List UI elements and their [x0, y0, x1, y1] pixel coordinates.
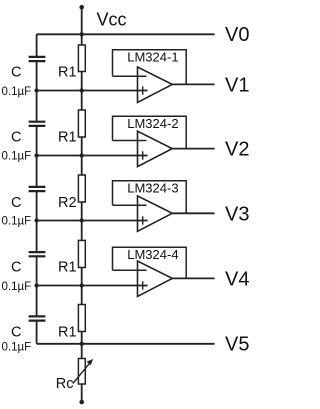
svg-text:R1: R1 — [58, 325, 77, 341]
resistor Rc (adjustable) — [73, 359, 93, 385]
wire tap node V4 — [37, 285, 148, 287]
junction chain tap 3 — [80, 218, 84, 222]
svg-text:0.1µF: 0.1µF — [2, 342, 32, 354]
resistor R1 (stage 4) — [78, 240, 85, 267]
resistor R1 (stage 2) — [78, 110, 85, 137]
wire inverting input U4 — [113, 269, 147, 271]
op-amp U4 (LM324-4) — [138, 261, 173, 296]
svg-text:LM324-3: LM324-3 — [127, 180, 178, 195]
power node Vcc — [79, 5, 126, 34]
wire output V1 — [172, 83, 214, 85]
junction chain tap 1 — [80, 88, 84, 92]
junction chain tap 2 — [80, 153, 84, 157]
wire tap node V1 — [37, 90, 148, 92]
wire resistor chain — [81, 34, 83, 402]
capacitor C (stage 2) — [29, 122, 46, 126]
svg-text:R2: R2 — [58, 195, 77, 211]
svg-text:R1: R1 — [58, 65, 77, 81]
wire output V4 — [172, 277, 214, 279]
wire output V2 — [172, 148, 214, 150]
wire inverting input U1 — [113, 75, 147, 77]
wire inverting input U3 — [113, 204, 147, 206]
wire V5 line — [37, 343, 215, 345]
op-amp U2 (LM324-2) — [138, 131, 173, 166]
svg-text:V3: V3 — [225, 203, 249, 225]
junction rail tap 3 — [34, 218, 38, 222]
resistor R1 (stage 1) — [78, 45, 85, 72]
svg-text:C: C — [11, 195, 21, 211]
svg-text:LM324-1: LM324-1 — [127, 49, 178, 64]
svg-text:V5: V5 — [225, 334, 249, 356]
capacitor C (stage 5) — [29, 316, 46, 320]
junction rail tap 4 — [34, 283, 38, 287]
op-amp U3 (LM324-3) — [138, 196, 173, 231]
wire feedback loop U4 — [113, 247, 187, 278]
svg-text:LM324-4: LM324-4 — [127, 247, 178, 262]
svg-text:V1: V1 — [225, 74, 249, 96]
svg-text:C: C — [11, 130, 21, 146]
wire tap node V3 — [37, 220, 148, 222]
capacitor C (stage 3) — [29, 187, 46, 191]
wire feedback loop U1 — [113, 50, 187, 85]
svg-text:0.1µF: 0.1µF — [2, 86, 32, 98]
junction rail tap 2 — [34, 153, 38, 157]
svg-text:LM324-2: LM324-2 — [127, 116, 178, 131]
svg-text:C: C — [11, 65, 21, 81]
wire capacitor rail — [36, 34, 38, 344]
wire tap node V2 — [37, 155, 148, 157]
svg-text:V2: V2 — [225, 139, 249, 161]
svg-text:R1: R1 — [58, 130, 77, 146]
junction chain tap 4 — [80, 283, 84, 287]
svg-text:V4: V4 — [225, 268, 249, 290]
wire output V3 — [172, 212, 214, 214]
svg-text:R1: R1 — [58, 260, 77, 276]
wire V0 rail — [37, 33, 215, 35]
capacitor C (stage 1) — [29, 57, 46, 61]
resistor R1 (stage 5) — [78, 305, 85, 332]
capacitor C (stage 4) — [29, 252, 46, 256]
junction rail tap 1 — [34, 88, 38, 92]
svg-text:Rc: Rc — [56, 376, 74, 392]
svg-text:C: C — [11, 260, 21, 276]
op-amp U1 (LM324-1) — [138, 67, 173, 102]
svg-text:Vcc: Vcc — [97, 10, 127, 30]
resistor R2 (stage 3) — [78, 175, 85, 202]
svg-text:V0: V0 — [225, 24, 249, 46]
wire inverting input U2 — [113, 140, 147, 142]
svg-text:C: C — [11, 325, 21, 341]
junction top rail / chain — [80, 32, 84, 36]
wire feedback loop U3 — [113, 181, 187, 214]
terminal (bottom of Rc) — [79, 400, 84, 405]
svg-text:0.1µF: 0.1µF — [2, 151, 32, 163]
wire feedback loop U2 — [113, 116, 187, 148]
svg-text:0.1µF: 0.1µF — [2, 216, 32, 228]
junction chain / V5 line — [80, 342, 84, 346]
svg-text:0.1µF: 0.1µF — [2, 281, 32, 293]
